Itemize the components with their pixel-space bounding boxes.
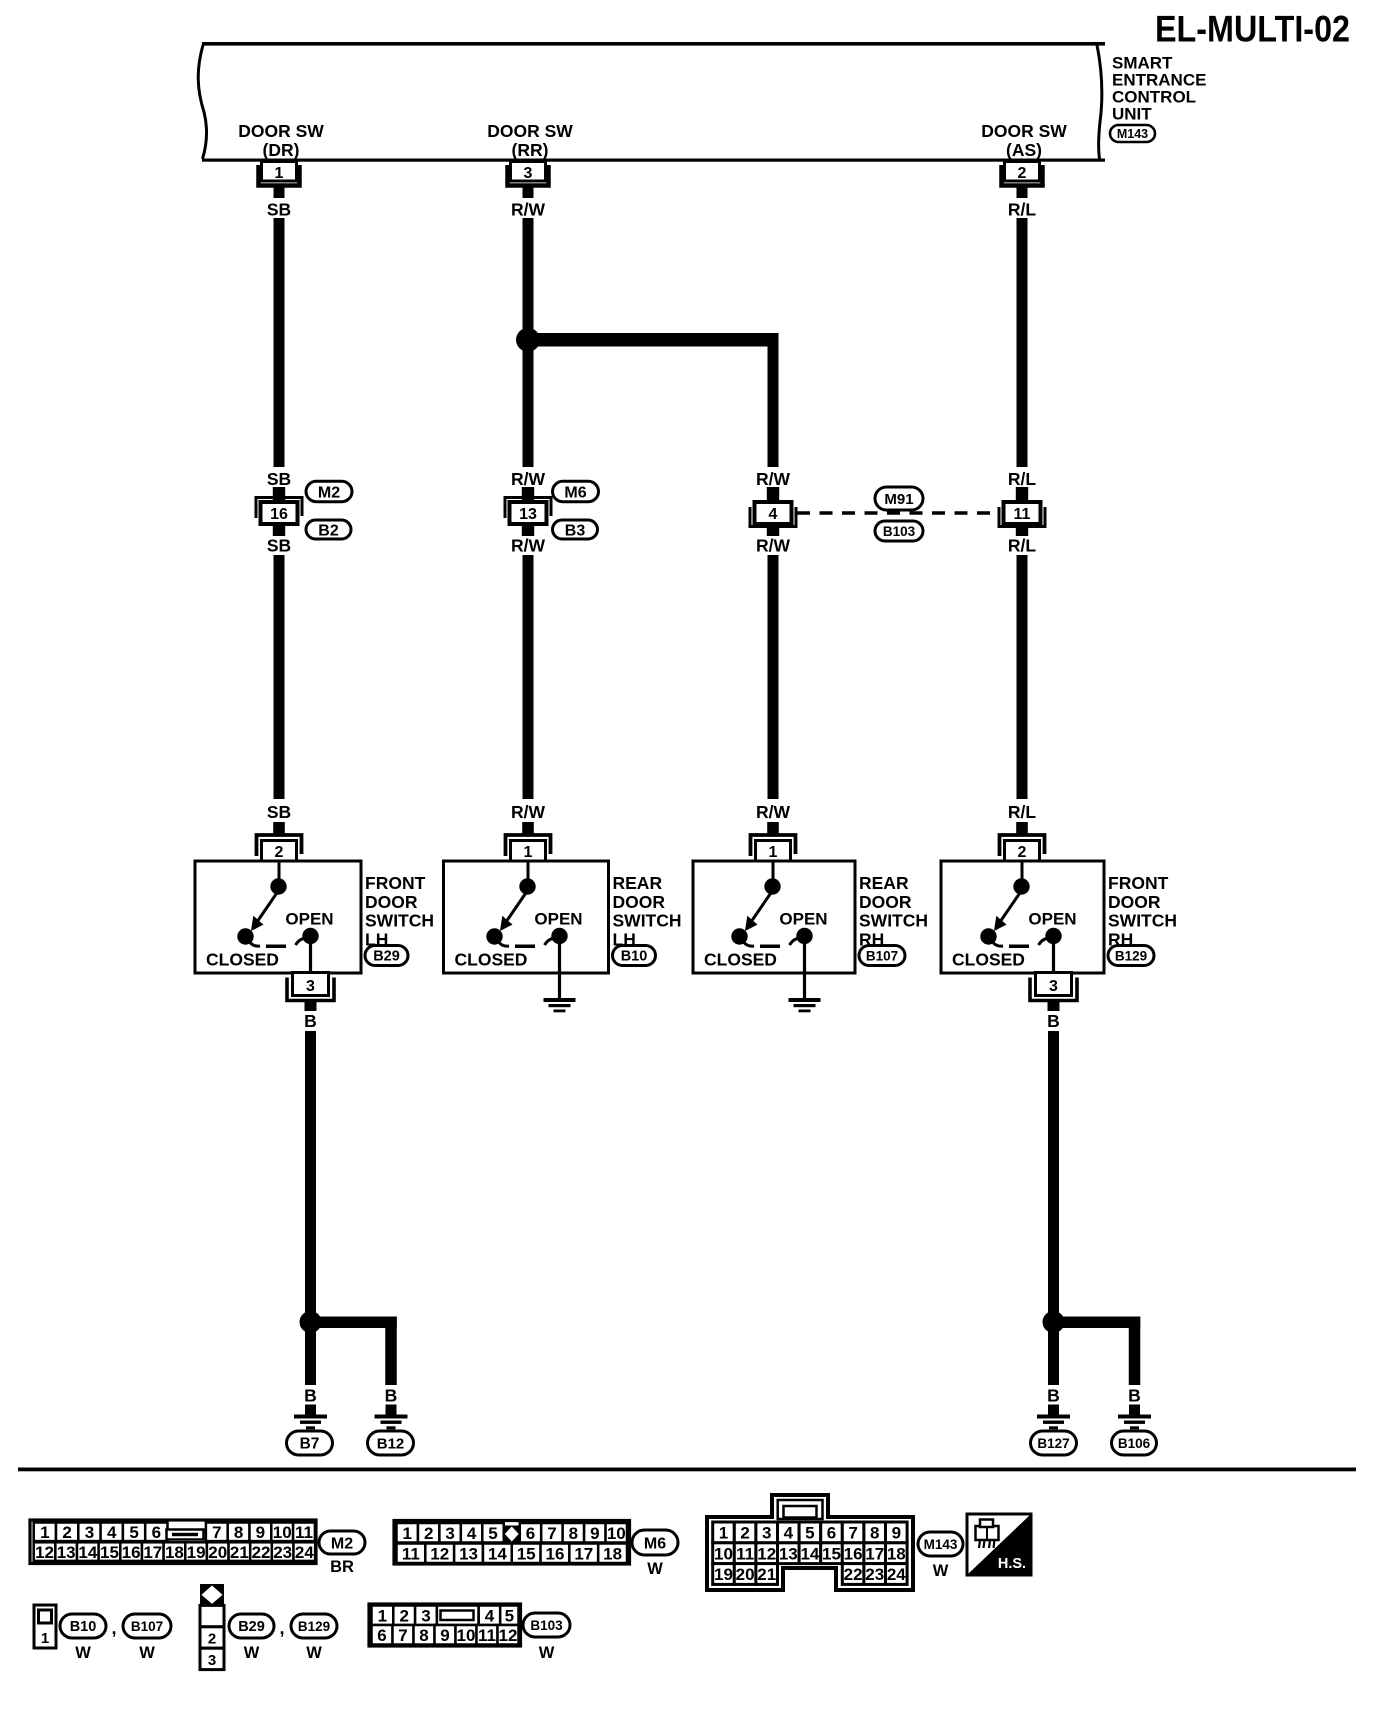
svg-text:EL-MULTI-02: EL-MULTI-02 — [1155, 9, 1350, 50]
svg-text:3: 3 — [445, 1524, 454, 1543]
svg-text:24: 24 — [887, 1565, 906, 1584]
svg-text:16: 16 — [546, 1544, 565, 1563]
svg-text:DOOR SW: DOOR SW — [238, 121, 324, 141]
svg-text:15: 15 — [100, 1543, 119, 1562]
svg-text:9: 9 — [256, 1523, 265, 1542]
svg-text:SB: SB — [267, 200, 291, 220]
svg-text:SB: SB — [267, 802, 291, 822]
svg-text:20: 20 — [208, 1543, 227, 1562]
svg-text:UNIT: UNIT — [1112, 105, 1152, 124]
svg-text:10: 10 — [714, 1544, 733, 1563]
svg-text:2: 2 — [1018, 844, 1027, 861]
svg-text:SWITCH: SWITCH — [365, 911, 434, 931]
svg-text:B107: B107 — [866, 948, 898, 963]
svg-text:B107: B107 — [131, 1619, 163, 1634]
svg-text:18: 18 — [165, 1543, 184, 1562]
svg-text:B129: B129 — [1115, 948, 1147, 963]
svg-text:OPEN: OPEN — [1028, 910, 1076, 929]
svg-text:M91: M91 — [884, 491, 913, 508]
svg-text:19: 19 — [187, 1543, 206, 1562]
svg-text:M6: M6 — [644, 1535, 666, 1552]
svg-text:2: 2 — [399, 1606, 408, 1625]
svg-text:,: , — [111, 1618, 116, 1638]
svg-text:R/L: R/L — [1008, 536, 1037, 556]
svg-text:7: 7 — [212, 1523, 221, 1542]
svg-text:B: B — [304, 1011, 317, 1031]
svg-text:OPEN: OPEN — [285, 910, 333, 929]
svg-text:7: 7 — [848, 1524, 857, 1543]
svg-text:SWITCH: SWITCH — [1108, 911, 1177, 931]
svg-text:R/L: R/L — [1008, 200, 1037, 220]
svg-text:CLOSED: CLOSED — [952, 950, 1025, 970]
svg-text:12: 12 — [35, 1543, 54, 1562]
svg-text:13: 13 — [459, 1544, 478, 1563]
svg-text:R/W: R/W — [756, 469, 791, 489]
svg-text:21: 21 — [757, 1565, 776, 1584]
svg-text:B: B — [1128, 1386, 1141, 1406]
svg-text:9: 9 — [440, 1626, 449, 1645]
svg-text:8: 8 — [870, 1524, 879, 1543]
svg-text:M143: M143 — [1117, 127, 1148, 141]
svg-text:5: 5 — [488, 1524, 497, 1543]
svg-text:(RR): (RR) — [512, 140, 549, 160]
svg-text:3: 3 — [762, 1524, 771, 1543]
svg-text:12: 12 — [430, 1544, 449, 1563]
svg-text:B: B — [1047, 1011, 1060, 1031]
svg-text:BR: BR — [330, 1558, 354, 1576]
svg-text:20: 20 — [736, 1565, 755, 1584]
svg-text:CLOSED: CLOSED — [455, 950, 528, 970]
svg-text:13: 13 — [779, 1544, 798, 1563]
svg-text:SWITCH: SWITCH — [859, 911, 928, 931]
svg-text:OPEN: OPEN — [534, 910, 582, 929]
svg-text:B29: B29 — [238, 1619, 265, 1635]
svg-text:B12: B12 — [377, 1435, 405, 1452]
svg-text:B2: B2 — [318, 522, 339, 539]
svg-text:10: 10 — [457, 1626, 476, 1645]
svg-text:DOOR SW: DOOR SW — [487, 121, 573, 141]
svg-text:11: 11 — [736, 1544, 754, 1563]
svg-text:DOOR: DOOR — [365, 892, 418, 912]
svg-text:W: W — [933, 1562, 949, 1580]
svg-text:3: 3 — [208, 1652, 216, 1669]
svg-text:2: 2 — [208, 1631, 216, 1648]
svg-text:23: 23 — [273, 1543, 292, 1562]
svg-text:6: 6 — [152, 1523, 161, 1542]
svg-text:FRONT: FRONT — [365, 873, 426, 893]
svg-text:H.S.: H.S. — [998, 1556, 1026, 1572]
svg-text:12: 12 — [499, 1626, 518, 1645]
svg-text:3: 3 — [1049, 978, 1058, 995]
svg-text:4: 4 — [107, 1523, 117, 1542]
svg-text:2: 2 — [62, 1523, 71, 1542]
svg-text:17: 17 — [143, 1543, 162, 1562]
svg-text:3: 3 — [524, 165, 533, 182]
svg-text:B10: B10 — [70, 1619, 97, 1635]
svg-text:23: 23 — [865, 1565, 884, 1584]
svg-text:B103: B103 — [530, 1618, 563, 1633]
svg-text:2: 2 — [424, 1524, 433, 1543]
svg-text:17: 17 — [865, 1544, 884, 1563]
svg-text:W: W — [306, 1644, 322, 1662]
svg-text:19: 19 — [714, 1565, 733, 1584]
svg-text:9: 9 — [590, 1524, 599, 1543]
svg-text:R/L: R/L — [1008, 469, 1037, 489]
svg-text:8: 8 — [419, 1626, 428, 1645]
svg-text:(AS): (AS) — [1006, 140, 1042, 160]
svg-text:W: W — [139, 1644, 155, 1662]
svg-text:11: 11 — [402, 1544, 420, 1563]
svg-text:CLOSED: CLOSED — [704, 950, 777, 970]
svg-text:17: 17 — [574, 1544, 593, 1563]
svg-text:11: 11 — [478, 1626, 496, 1645]
svg-text:B: B — [385, 1386, 398, 1406]
svg-text:3: 3 — [85, 1523, 94, 1542]
svg-text:R/W: R/W — [511, 802, 546, 822]
svg-text:10: 10 — [273, 1523, 292, 1542]
svg-text:DOOR: DOOR — [1108, 892, 1161, 912]
svg-text:DOOR SW: DOOR SW — [981, 121, 1067, 141]
svg-text:8: 8 — [569, 1524, 578, 1543]
svg-text:FRONT: FRONT — [1108, 873, 1169, 893]
svg-text:W: W — [244, 1644, 260, 1662]
svg-text:W: W — [75, 1644, 91, 1662]
svg-text:6: 6 — [526, 1524, 535, 1543]
svg-text:B3: B3 — [565, 522, 586, 539]
svg-text:M143: M143 — [924, 1537, 958, 1552]
svg-text:6: 6 — [377, 1626, 386, 1645]
svg-text:REAR: REAR — [859, 873, 909, 893]
svg-text:M6: M6 — [564, 484, 586, 501]
svg-text:,: , — [279, 1618, 284, 1638]
svg-text:DOOR: DOOR — [613, 892, 666, 912]
svg-text:7: 7 — [398, 1626, 407, 1645]
svg-text:15: 15 — [822, 1544, 841, 1563]
svg-text:B129: B129 — [298, 1619, 330, 1634]
svg-text:DOOR: DOOR — [859, 892, 912, 912]
svg-text:M2: M2 — [318, 484, 340, 501]
svg-text:1: 1 — [275, 165, 284, 182]
svg-text:SB: SB — [267, 469, 291, 489]
svg-text:2: 2 — [275, 844, 284, 861]
svg-text:B106: B106 — [1118, 1436, 1151, 1451]
svg-text:12: 12 — [757, 1544, 776, 1563]
svg-text:R/W: R/W — [511, 200, 546, 220]
svg-text:(DR): (DR) — [263, 140, 300, 160]
svg-text:SWITCH: SWITCH — [613, 911, 682, 931]
svg-text:B29: B29 — [373, 949, 400, 965]
svg-text:24: 24 — [295, 1543, 314, 1562]
svg-text:OPEN: OPEN — [779, 910, 827, 929]
svg-text:1: 1 — [40, 1523, 49, 1542]
svg-text:W: W — [647, 1560, 663, 1578]
svg-text:14: 14 — [488, 1544, 507, 1563]
svg-text:M2: M2 — [331, 1535, 353, 1552]
svg-text:B10: B10 — [621, 949, 648, 965]
svg-text:18: 18 — [887, 1544, 906, 1563]
svg-text:13: 13 — [519, 506, 537, 523]
svg-text:8: 8 — [234, 1523, 243, 1542]
svg-text:1: 1 — [719, 1524, 728, 1543]
svg-text:R/W: R/W — [756, 802, 791, 822]
svg-text:2: 2 — [1018, 165, 1027, 182]
svg-text:B103: B103 — [883, 524, 916, 539]
svg-text:R/W: R/W — [511, 536, 546, 556]
svg-text:22: 22 — [252, 1543, 271, 1562]
svg-text:14: 14 — [800, 1544, 819, 1563]
svg-text:SB: SB — [267, 536, 291, 556]
svg-text:6: 6 — [827, 1524, 836, 1543]
svg-text:16: 16 — [270, 506, 288, 523]
svg-text:B: B — [1047, 1386, 1060, 1406]
svg-text:9: 9 — [892, 1524, 901, 1543]
svg-text:16: 16 — [122, 1543, 141, 1562]
svg-text:R/W: R/W — [756, 536, 791, 556]
svg-text:16: 16 — [844, 1544, 863, 1563]
svg-text:R/W: R/W — [511, 469, 546, 489]
svg-text:15: 15 — [517, 1544, 536, 1563]
svg-text:B7: B7 — [300, 1436, 320, 1453]
svg-text:22: 22 — [844, 1565, 863, 1584]
svg-text:W: W — [539, 1644, 555, 1662]
svg-text:4: 4 — [769, 506, 778, 523]
svg-text:1: 1 — [41, 1630, 49, 1647]
svg-text:1: 1 — [378, 1606, 387, 1625]
svg-text:21: 21 — [230, 1543, 249, 1562]
svg-text:5: 5 — [129, 1523, 138, 1542]
svg-text:14: 14 — [78, 1543, 97, 1562]
svg-text:2: 2 — [740, 1524, 749, 1543]
svg-text:4: 4 — [467, 1524, 477, 1543]
svg-text:1: 1 — [402, 1524, 411, 1543]
svg-text:18: 18 — [603, 1544, 622, 1563]
svg-text:11: 11 — [295, 1523, 313, 1542]
svg-text:B: B — [304, 1386, 317, 1406]
svg-text:5: 5 — [505, 1606, 514, 1625]
svg-text:1: 1 — [769, 844, 778, 861]
svg-text:B127: B127 — [1037, 1436, 1069, 1451]
svg-text:7: 7 — [547, 1524, 556, 1543]
svg-text:REAR: REAR — [613, 873, 663, 893]
svg-text:5: 5 — [805, 1524, 814, 1543]
svg-text:4: 4 — [485, 1606, 495, 1625]
svg-text:3: 3 — [421, 1606, 430, 1625]
svg-text:R/L: R/L — [1008, 802, 1037, 822]
svg-text:CLOSED: CLOSED — [206, 950, 279, 970]
svg-text:4: 4 — [784, 1524, 794, 1543]
svg-text:11: 11 — [1014, 506, 1031, 523]
svg-text:10: 10 — [607, 1524, 626, 1543]
svg-text:1: 1 — [524, 844, 533, 861]
svg-text:3: 3 — [306, 978, 315, 995]
svg-text:13: 13 — [57, 1543, 76, 1562]
